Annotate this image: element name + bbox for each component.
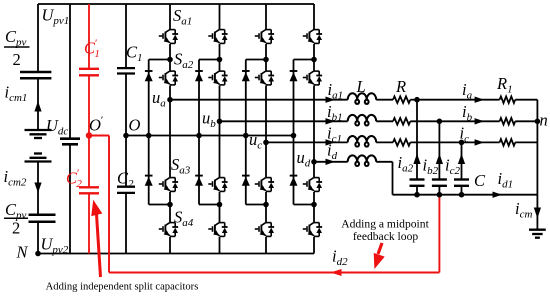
svg-text:Adding independent split capac: Adding independent split capacitors — [46, 282, 199, 293]
svg-text:L: L — [356, 77, 366, 96]
svg-text:C: C — [474, 171, 486, 190]
svg-text:2: 2 — [13, 50, 21, 69]
svg-text:2: 2 — [12, 218, 20, 237]
svg-text:O: O — [129, 116, 141, 135]
svg-text:Adding a midpoint: Adding a midpoint — [341, 217, 429, 230]
svg-text:N: N — [16, 243, 29, 262]
svg-text:feedback loop: feedback loop — [353, 230, 419, 243]
svg-text:R: R — [395, 77, 406, 96]
svg-text:n: n — [540, 111, 548, 130]
